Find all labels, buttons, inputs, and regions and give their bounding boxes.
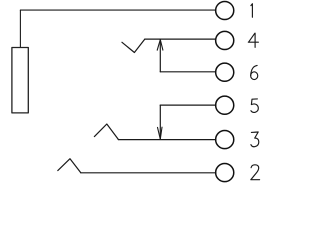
- pin 4 label: [248, 33, 258, 47]
- jack body (sleeve) rectangle: [12, 48, 28, 113]
- switch contact on pin 4 wire: [122, 39, 145, 52]
- wire pin2 horizontal: [81, 172, 216, 174]
- pin 2 terminal circle: [216, 164, 234, 182]
- wire pin3 horizontal: [118, 139, 215, 141]
- wire pin4 horizontal: [145, 38, 216, 40]
- link wire pin4-pin6 vertical: [159, 40, 161, 72]
- pin 4 terminal circle: [216, 31, 234, 49]
- pin 6 label: [251, 65, 258, 79]
- pin 5 terminal circle: [216, 96, 234, 114]
- pin 1 terminal circle: [216, 1, 234, 19]
- pin 3 terminal circle: [216, 131, 234, 149]
- pin 2 label: [251, 165, 260, 180]
- pin 5 label: [251, 99, 258, 113]
- arrowhead pointing up at pin4 wire: [157, 40, 163, 51]
- pin 1 label: [251, 4, 253, 18]
- wire pin6 horizontal: [160, 71, 216, 73]
- pin 3 label: [251, 132, 259, 147]
- pin 6 terminal circle: [216, 63, 234, 81]
- link wire pin5-pin3 vertical: [159, 105, 161, 139]
- switch contact on pin 2 wire: [58, 159, 81, 173]
- switch contact on pin 3 wire: [94, 124, 118, 140]
- wire pin5 horizontal: [160, 104, 216, 106]
- wire pin1 horizontal: [20, 9, 215, 11]
- wire pin1 vertical to jack body: [19, 10, 21, 47]
- arrowhead pointing down at pin3 wire: [158, 127, 163, 139]
